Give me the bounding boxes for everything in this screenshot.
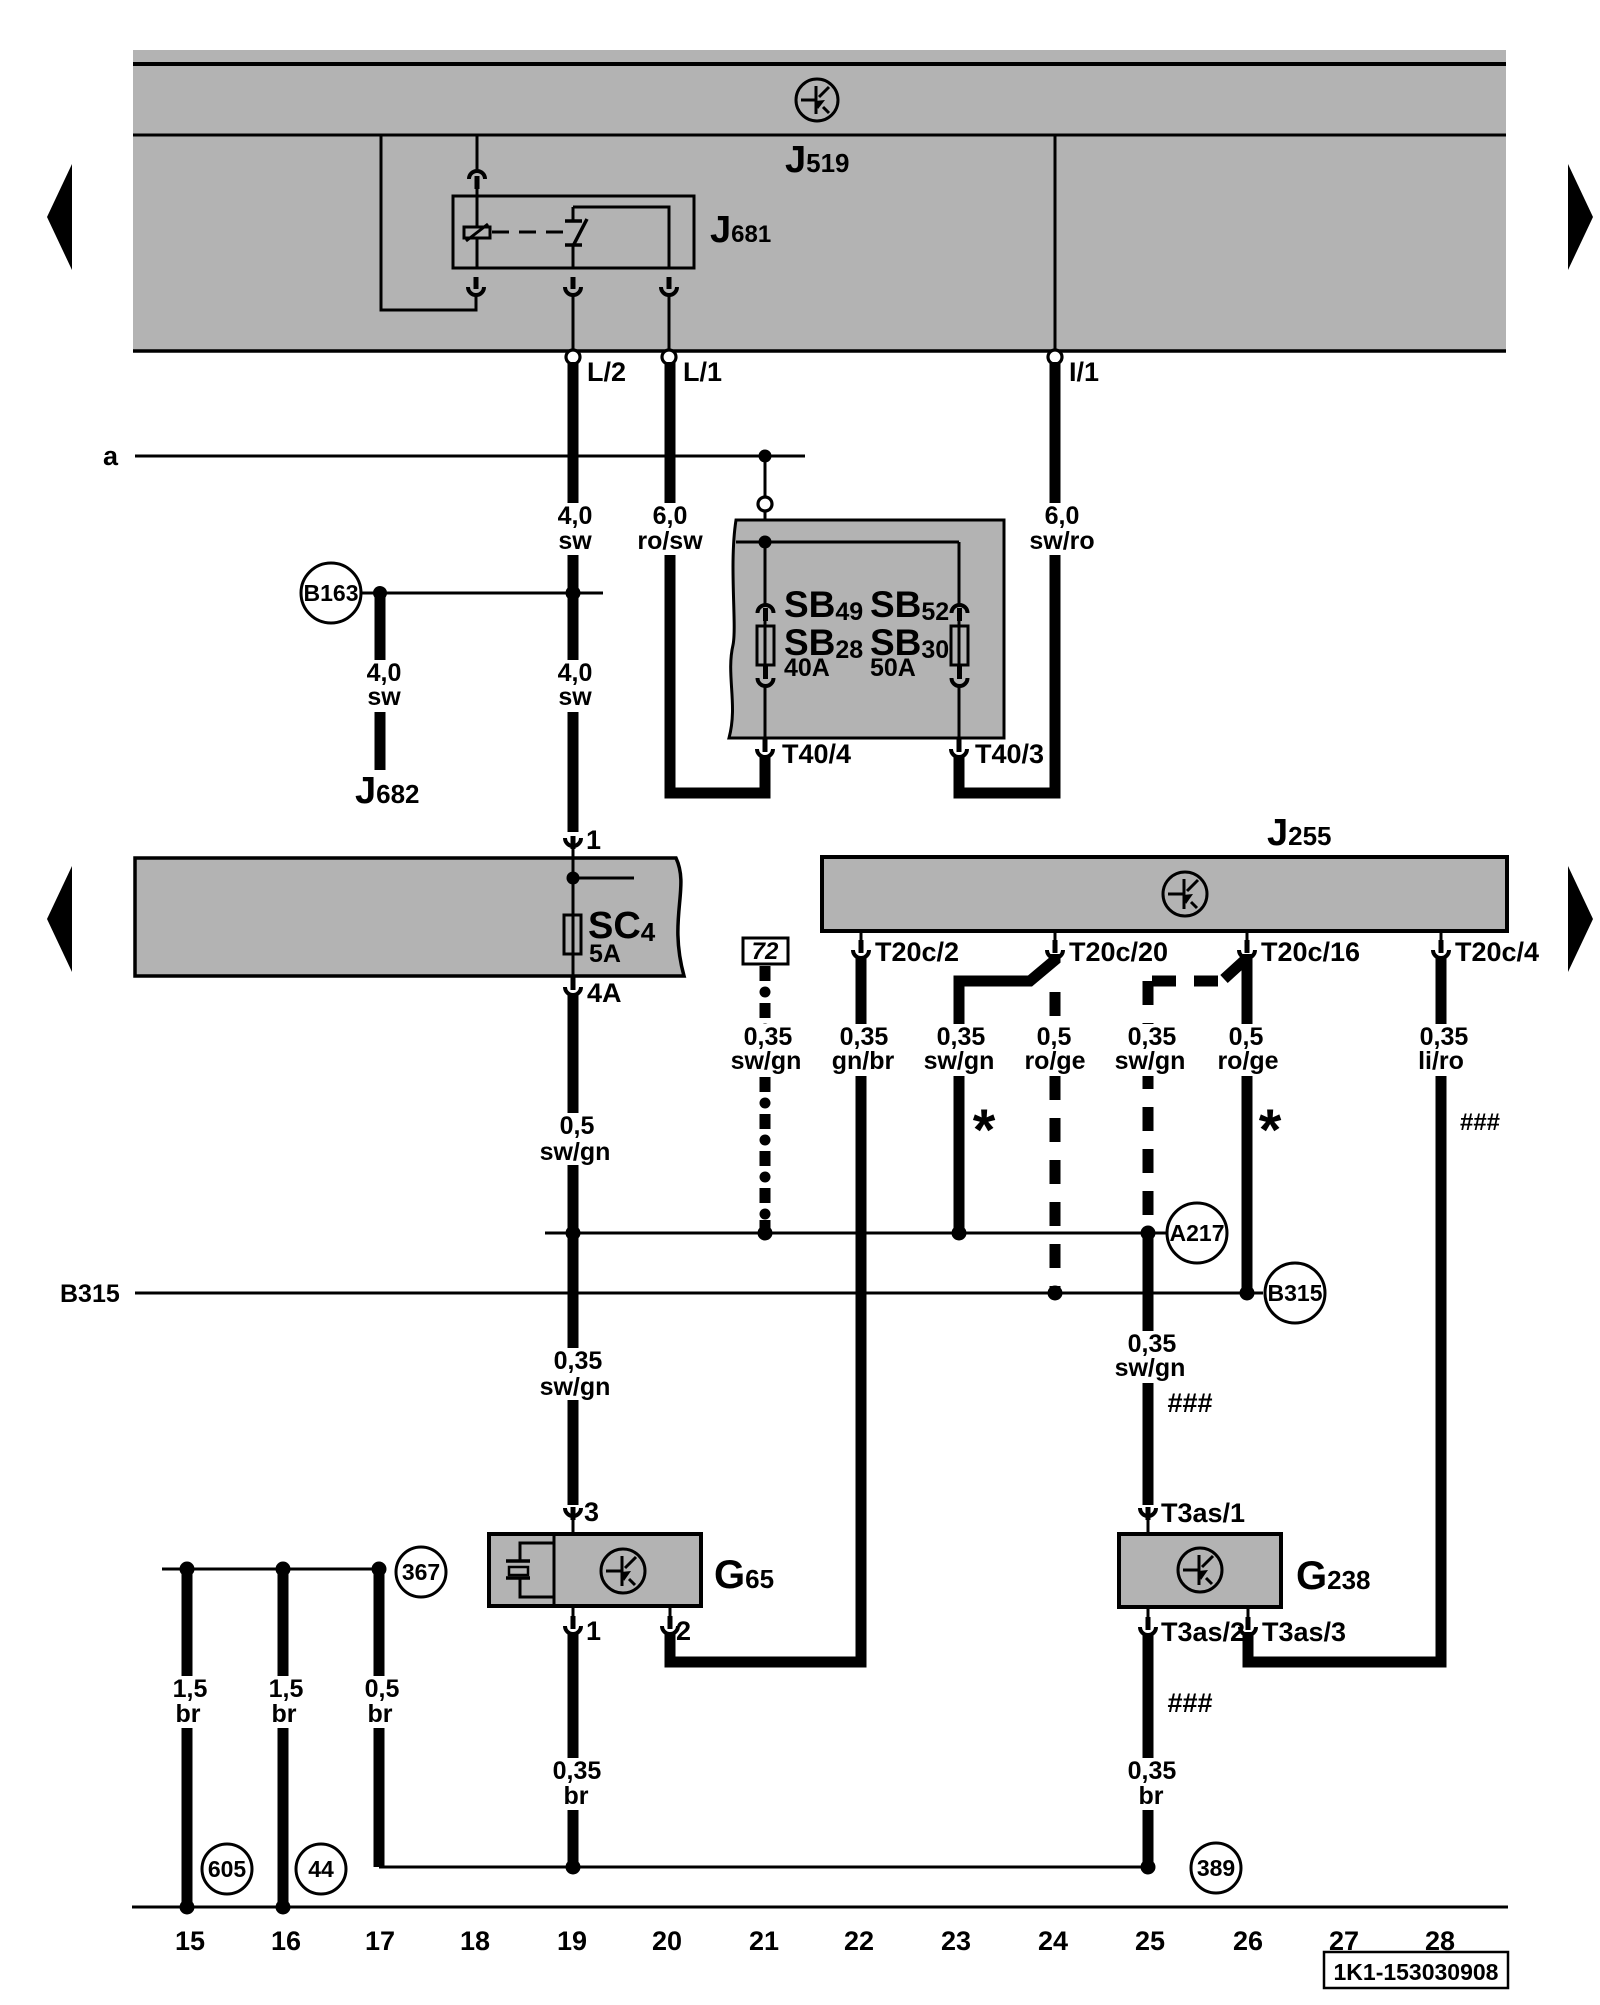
svg-text:I/1: I/1 [1069,357,1099,387]
wire 6,0 sw/ro from I/1 to T40/3 [959,362,1055,793]
electronics symbol K in G238 [1178,1548,1222,1592]
ground point 605 circle [202,1844,252,1894]
pin T3as/1 into G238 [1140,1508,1156,1516]
svg-text:*: * [973,1098,996,1163]
sensor G238 box (air quality sensor) [1119,1534,1281,1607]
plug code 72 box [743,938,788,964]
electronics symbol K in G65 [601,1549,645,1593]
svg-text:B163: B163 [304,580,359,606]
svg-text:18: 18 [460,1926,490,1956]
pin T40/3 [957,739,962,752]
ground wire 1,5 br (track 15) [182,1569,193,1907]
svg-text:br: br [564,1782,589,1810]
junction on line a [759,450,772,463]
pin: relay output connector [667,277,672,289]
label 0,35 li/ro [1404,1024,1484,1076]
bottom rail [132,1906,1508,1909]
terminal ring I/1 [1048,350,1062,364]
svg-text:br: br [272,1700,297,1728]
svg-text:gn/br: gn/br [832,1047,895,1075]
svg-text:T20c/16: T20c/16 [1261,937,1360,967]
svg-text:###: ### [1167,1688,1212,1718]
label 4,0 sw (main branch lower) [543,660,607,712]
dashed wire 0,5 ro/ge from T20c/20 to node B315 [1050,992,1061,1293]
svg-text:17: 17 [365,1926,395,1956]
fuse panel band SC (wavy right edge) [135,858,684,976]
svg-text:ro/ge: ro/ge [1024,1047,1085,1075]
wire 0,35 gn/br from T20c/2 to G65 pin 2 [670,956,861,1662]
relay switch contact [565,207,587,268]
dashed wire 0,35 sw/gn from T20c/16 elbow to node A217 [1224,954,1247,979]
wire 0,5 ro/ge from T20c/16 to node B315 [1242,958,1253,1293]
fuse SB49/SB28 element [757,626,774,665]
label 0,35 br [543,1758,611,1810]
svg-text:ro/ge: ro/ge [1217,1047,1278,1075]
wire: coil return loop inside J519 [381,135,476,310]
label 0,5 sw/gn [537,1113,617,1165]
svg-text:T3as/3: T3as/3 [1262,1617,1346,1647]
svg-text:6,0: 6,0 [1045,502,1080,530]
wire 0,35 sw/gn from T20c/20 elbow down to node A217 [959,954,1055,1233]
right page arrow (middle row) [1568,866,1593,972]
svg-text:T40/4: T40/4 [782,739,851,769]
wire 0,35 br from T3as/2 to ground node [1143,1633,1154,1867]
node line a [135,455,805,458]
ECU J519 band (onboard supply control unit) [133,50,1506,352]
fuse SB52/SB30 element [951,626,968,665]
svg-text:23: 23 [941,1926,971,1956]
connection B315 circle [1265,1263,1325,1323]
pin T3as/2 [1147,1607,1150,1618]
pin 1 of G65 [572,1606,575,1617]
svg-text:0,5: 0,5 [560,1112,595,1140]
electronics symbol K in J255 [1163,872,1207,916]
pin: relay switch bottom connector [571,277,576,289]
node on B163 line [373,586,387,600]
svg-text:1,5: 1,5 [173,1675,208,1703]
label 4,0 sw (upper) [537,503,613,555]
ground wire 1,5 br (track 16) [278,1569,289,1907]
fuse SC4 element [564,915,581,954]
connection A217 circle [1167,1203,1227,1263]
electronics symbol K in J519 [796,79,838,121]
pin 3 into G65 [565,1508,581,1516]
relay J681 box [453,196,694,268]
svg-text:20: 20 [652,1926,682,1956]
SB box internal feed line [736,541,959,544]
ground link line (wires 15-17) [162,1568,379,1571]
wire 0,35 sw/gn from A217 to T3as/1 [1143,1233,1154,1505]
svg-text:44: 44 [308,1856,334,1882]
node line B315 [135,1292,1263,1295]
label 6,0 sw/ro [1022,503,1102,555]
svg-text:*: * [1259,1098,1282,1163]
G65 piezo sensor symbol [506,1543,553,1597]
wire: SB feed to second fuse [958,542,961,605]
svg-text:0,35: 0,35 [553,1757,602,1785]
svg-text:li/ro: li/ro [1418,1047,1464,1075]
pin 2 of G65 [669,1606,672,1617]
svg-text:a: a [103,441,119,471]
label 0,35 sw/gn [921,1024,1001,1076]
connection 367 circle [396,1547,446,1597]
svg-text:0,35: 0,35 [554,1347,603,1375]
junction on 4,0 sw wire [566,586,581,601]
connection B163 circle [301,563,361,623]
svg-text:L/1: L/1 [683,357,722,387]
svg-text:br: br [1139,1782,1164,1810]
pin T20c/16 [1246,931,1249,941]
left page arrow (middle row) [47,866,72,972]
svg-text:0,35: 0,35 [1128,1757,1177,1785]
svg-text:40A: 40A [784,654,830,682]
diagram number plate [1324,1952,1508,1988]
svg-text:15: 15 [175,1926,205,1956]
svg-text:ro/sw: ro/sw [637,527,703,555]
svg-text:16: 16 [271,1926,301,1956]
pin 1 into fuse panel [565,838,581,846]
svg-text:T40/3: T40/3 [975,739,1044,769]
pin T20c/4 [1440,931,1443,941]
svg-text:21: 21 [749,1926,779,1956]
wire 4,0 sw from L/2 down to fuse panel [568,362,579,832]
svg-text:sw/ro: sw/ro [1029,527,1094,555]
svg-text:1K1-153030908: 1K1-153030908 [1334,1959,1499,1985]
svg-text:sw: sw [367,683,401,711]
label 6,0 ro/sw [630,503,710,555]
fuse SB49/SB28 bottom connector [763,666,768,679]
svg-text:sw/gn: sw/gn [731,1047,802,1075]
wire: J519 internal to I/1 [1054,135,1057,351]
wire 6,0 ro/sw from L/1 to T40/4 [670,362,765,793]
wire: relay coil bottom to box edge [476,238,479,268]
wire 4,0 sw to J682 [375,593,386,770]
relay coil [464,227,490,238]
svg-text:sw/gn: sw/gn [1115,1354,1186,1382]
svg-text:sw/gn: sw/gn [1115,1047,1186,1075]
svg-text:sw/gn: sw/gn [540,1138,611,1166]
svg-text:1: 1 [586,825,601,855]
wire: tap from line a to SB fuse box [764,456,767,497]
svg-text:4,0: 4,0 [558,502,593,530]
wire 0,5 sw/gn from 4A down [568,995,579,1505]
svg-text:T3as/1: T3as/1 [1161,1498,1245,1528]
svg-text:25: 25 [1135,1926,1165,1956]
svg-text:4A: 4A [587,978,622,1008]
svg-text:26: 26 [1233,1926,1263,1956]
svg-text:19: 19 [557,1926,587,1956]
svg-text:T3as/2: T3as/2 [1161,1617,1245,1647]
svg-text:50A: 50A [870,654,916,682]
svg-text:B315: B315 [1268,1280,1323,1306]
svg-text:1,5: 1,5 [269,1675,304,1703]
terminal ring above SB box [758,497,772,511]
ground connection line 367/389 [379,1866,1148,1869]
wire: J519 internal feed to relay coil [476,135,479,169]
fuse SB52/SB30 top connector [952,605,968,613]
track numbers [175,1926,1455,1956]
label 0,35 gn/br [824,1024,904,1076]
svg-text:br: br [176,1700,201,1728]
svg-text:3: 3 [584,1497,599,1527]
label 0,35 sw/gn (below B315) [538,1348,618,1400]
label 0,5 ro/ge [1014,1024,1094,1076]
terminal ring L/1 [662,350,676,364]
svg-text:A217: A217 [1170,1220,1225,1246]
svg-text:T20c/20: T20c/20 [1069,937,1168,967]
wire 0,35 li/ro from T20c/4 to T3as/3 [1248,956,1441,1662]
ground point 389 circle [1191,1843,1241,1893]
fuse SB52/SB30 bottom connector [957,666,962,679]
svg-text:sw/gn: sw/gn [540,1373,611,1401]
svg-text:72: 72 [752,938,779,965]
SC panel internal line [572,858,575,976]
label 0,5 ro/ge [1206,1024,1286,1076]
pin 4A [571,977,576,990]
svg-text:T20c/2: T20c/2 [875,937,959,967]
label 0,35 sw/gn (72 wire) [728,1024,808,1076]
ground wire 0,5 br (track 17) [374,1569,385,1867]
svg-text:###: ### [1460,1109,1500,1136]
label 0,35 br [1118,1758,1186,1810]
svg-text:br: br [368,1700,393,1728]
svg-text:sw/gn: sw/gn [924,1047,995,1075]
node line A217 [545,1232,1167,1235]
svg-text:24: 24 [1038,1926,1068,1956]
wire 0,35 br from G65 pin 1 to ground node [568,1632,579,1867]
pin T40/4 [763,739,768,752]
svg-text:1: 1 [586,1616,601,1646]
svg-text:2: 2 [676,1616,691,1646]
wire: relay internal loop switch to L/1 pin [573,207,669,268]
svg-text:389: 389 [1197,1855,1235,1881]
label 0,35 sw/gn [1112,1331,1192,1383]
svg-text:5A: 5A [589,940,621,968]
dotted wire 0,35 sw/gn from 72 to node A217 [760,966,771,1230]
svg-text:6,0: 6,0 [653,502,688,530]
svg-text:0,5: 0,5 [365,1675,400,1703]
wire: B163 link line [361,592,603,595]
pin T20c/2 [860,931,863,941]
pin: relay coil bottom connector [474,277,479,289]
pin: relay coil top connector [469,171,485,179]
ground point 44 circle [296,1844,346,1894]
svg-text:sw: sw [558,527,592,555]
fuse SB49/SB28 top connector [758,605,774,613]
svg-text:B315: B315 [60,1280,120,1308]
label 0,35 sw/gn [1112,1024,1192,1076]
svg-text:22: 22 [844,1926,874,1956]
sensor G65 box (high pressure sender) [489,1534,701,1606]
pin T3as/3 [1247,1607,1250,1618]
svg-text:###: ### [1167,1388,1212,1418]
svg-text:sw: sw [558,683,592,711]
fuse box SB (with wavy left edge) [729,520,1004,738]
right page arrow (top row) [1568,164,1593,270]
dashed actuation line [492,231,566,234]
svg-text:T20c/4: T20c/4 [1455,937,1539,967]
left page arrow (top row) [47,164,72,270]
label 4,0 sw (J682 branch) [352,660,416,712]
pin T20c/20 [1054,931,1057,941]
svg-text:L/2: L/2 [587,357,626,387]
terminal ring L/2 [566,350,580,364]
svg-text:367: 367 [402,1559,440,1585]
ECU J255 band (Climatronic control unit) [822,857,1507,931]
svg-text:605: 605 [208,1856,247,1882]
